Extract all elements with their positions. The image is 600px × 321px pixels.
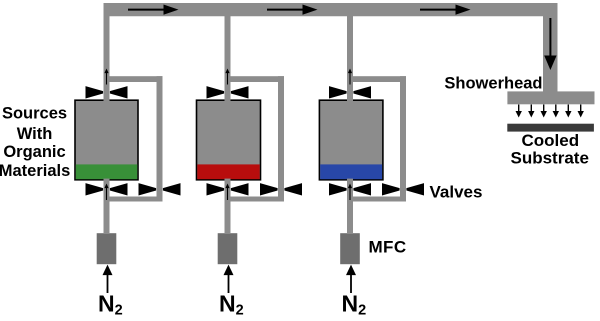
svg-text:MFC: MFC xyxy=(369,238,407,257)
svg-text:With: With xyxy=(17,125,53,143)
svg-text:Materials: Materials xyxy=(0,162,70,180)
svg-text:Cooled: Cooled xyxy=(521,131,579,150)
svg-text:Showerhead: Showerhead xyxy=(444,74,542,92)
svg-text:Substrate: Substrate xyxy=(510,148,588,167)
svg-text:Sources: Sources xyxy=(2,105,67,123)
svg-text:Valves: Valves xyxy=(430,182,483,201)
svg-text:Organic: Organic xyxy=(3,143,65,161)
